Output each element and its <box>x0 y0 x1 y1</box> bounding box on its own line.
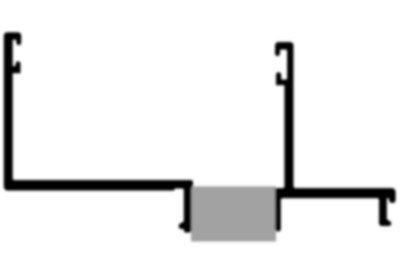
grey infill block <box>191 186 276 241</box>
left profile <box>4 33 193 233</box>
right profile <box>275 42 395 231</box>
